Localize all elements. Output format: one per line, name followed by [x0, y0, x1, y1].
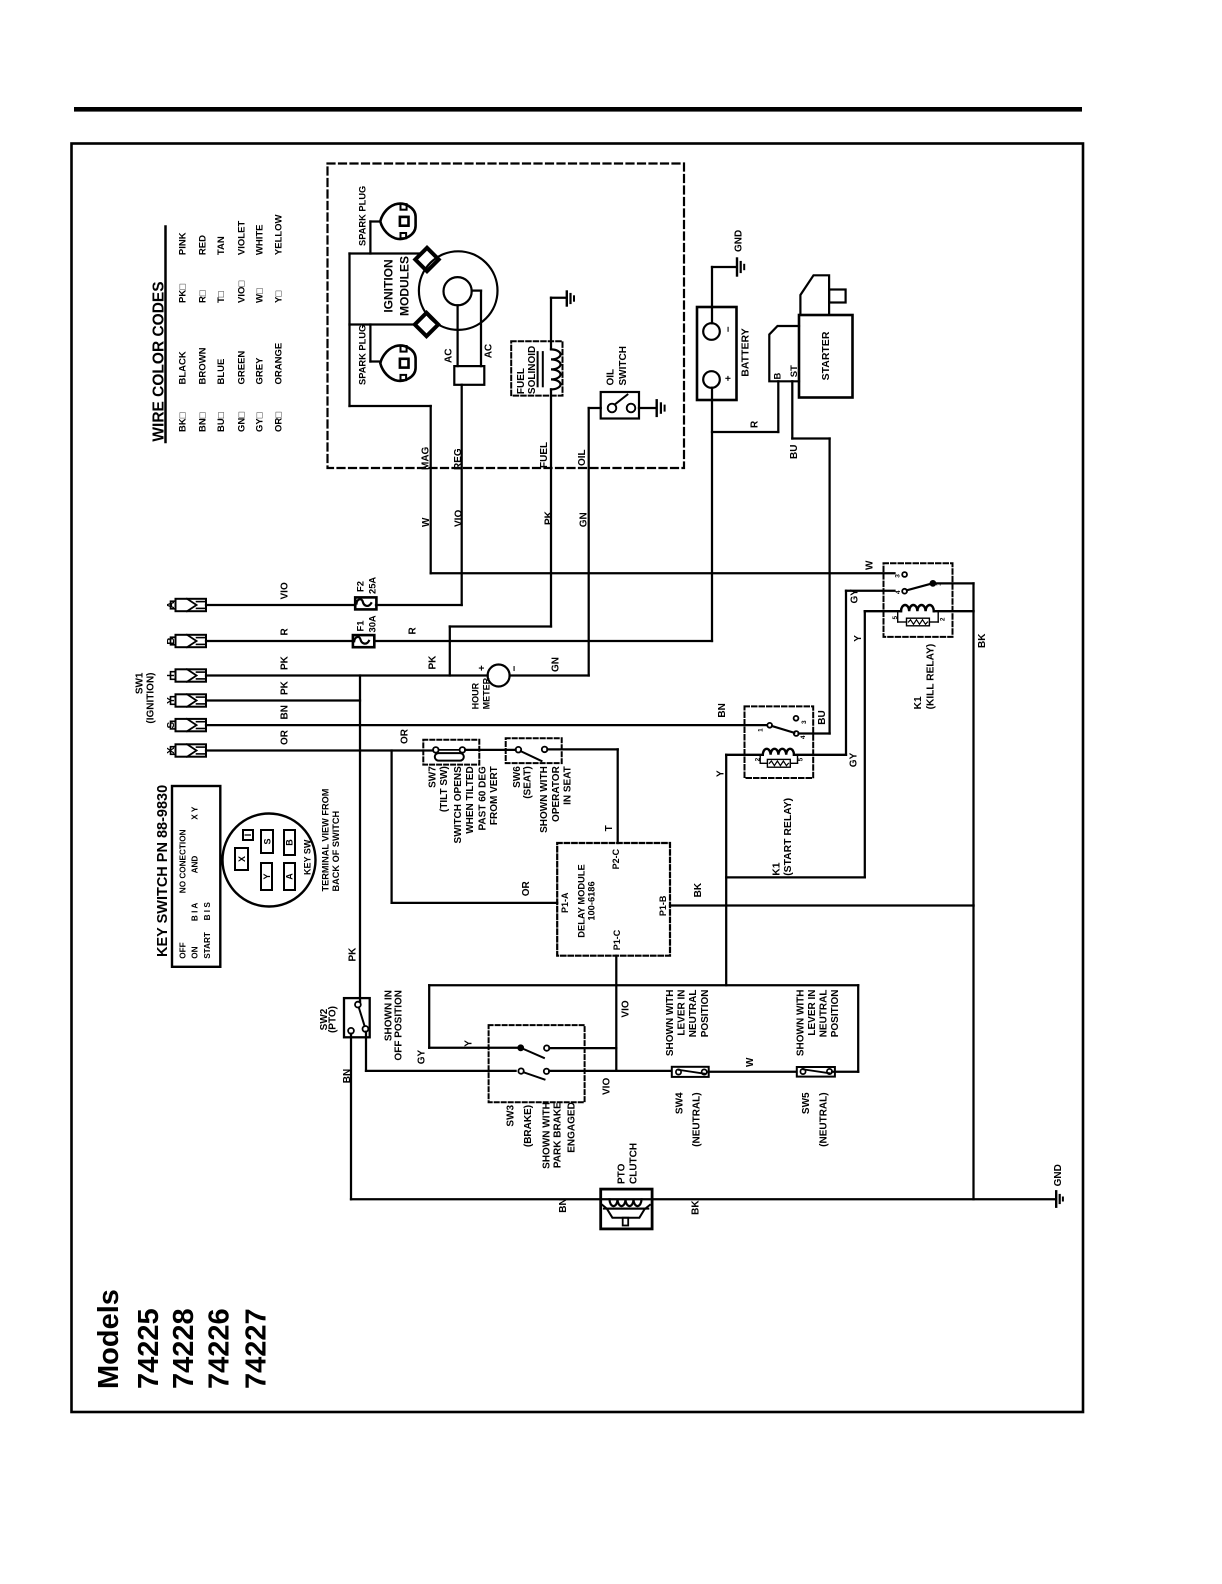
svg-text:PARK BRAKE: PARK BRAKE: [553, 1102, 564, 1168]
svg-text:2: 2: [754, 757, 761, 761]
svg-text:YELLOW: YELLOW: [273, 214, 284, 255]
svg-text:NEUTRAL: NEUTRAL: [688, 990, 699, 1038]
svg-text:OR: OR: [521, 881, 532, 897]
svg-text:BK: BK: [690, 1200, 701, 1215]
svg-text:IN SEAT: IN SEAT: [563, 766, 574, 805]
svg-text:SHOWN WITH: SHOWN WITH: [665, 990, 676, 1057]
svg-text:BK: BK: [693, 882, 704, 897]
svg-text:4: 4: [800, 735, 807, 739]
svg-text:AC: AC: [484, 344, 495, 358]
svg-text:GY: GY: [416, 1050, 427, 1065]
svg-text:GY: GY: [848, 752, 859, 767]
svg-text:FUEL: FUEL: [516, 368, 527, 394]
svg-text:SWITCH: SWITCH: [618, 346, 629, 385]
svg-text:SHOWN WITH: SHOWN WITH: [542, 1102, 553, 1169]
svg-text:B: B: [166, 637, 177, 644]
svg-text:WHITE: WHITE: [255, 224, 266, 255]
svg-text:NEUTRAL: NEUTRAL: [818, 990, 829, 1038]
svg-text:MAG: MAG: [421, 446, 432, 470]
svg-text:BK: BK: [977, 633, 988, 648]
svg-text:SW5: SW5: [801, 1092, 812, 1114]
svg-text:VIO: VIO: [280, 582, 291, 599]
svg-text:OPERATOR: OPERATOR: [551, 765, 562, 822]
svg-text:+: +: [477, 665, 488, 671]
svg-text:OFF POSITION: OFF POSITION: [393, 990, 404, 1061]
svg-text:PK: PK: [348, 947, 359, 962]
svg-text:3: 3: [801, 720, 808, 724]
svg-text:W: W: [745, 1057, 756, 1067]
svg-text:−: −: [510, 666, 521, 672]
svg-text:POSITION: POSITION: [830, 990, 841, 1038]
svg-text:BN: BN: [717, 703, 728, 717]
svg-text:SW3: SW3: [506, 1104, 517, 1126]
svg-text:B I S: B I S: [203, 902, 212, 921]
svg-text:SW7: SW7: [428, 766, 439, 788]
svg-text:SHOWN WITH: SHOWN WITH: [795, 990, 806, 1057]
svg-text:K1: K1: [913, 696, 924, 709]
svg-text:+: +: [724, 375, 735, 381]
svg-text:I: I: [166, 674, 177, 677]
svg-text:T: T: [604, 825, 615, 831]
svg-text:W: W: [421, 517, 432, 527]
svg-text:S: S: [262, 838, 272, 844]
svg-text:100-6186: 100-6186: [586, 881, 596, 920]
svg-text:BU□: BU□: [216, 412, 227, 432]
svg-text:Y: Y: [715, 770, 726, 777]
svg-text:POSITION: POSITION: [700, 990, 711, 1038]
svg-text:NO CONECTION: NO CONECTION: [179, 829, 188, 893]
svg-text:SW1: SW1: [135, 672, 146, 694]
svg-text:TERMINAL VIEW FROM: TERMINAL VIEW FROM: [321, 788, 331, 891]
svg-text:REG: REG: [453, 448, 464, 470]
svg-text:LEVER IN: LEVER IN: [807, 990, 818, 1036]
svg-text:PK: PK: [280, 655, 291, 670]
svg-text:VIO: VIO: [621, 1000, 632, 1017]
svg-text:HOUR: HOUR: [471, 682, 481, 709]
svg-text:VIO: VIO: [454, 510, 465, 527]
svg-text:BU: BU: [789, 445, 800, 459]
svg-text:(START RELAY): (START RELAY): [783, 798, 794, 876]
svg-text:74228: 74228: [168, 1308, 200, 1389]
svg-text:SW4: SW4: [675, 1092, 686, 1114]
svg-text:−: −: [724, 326, 735, 332]
svg-text:SPARK PLUG: SPARK PLUG: [358, 186, 368, 246]
svg-text:FROM VERT: FROM VERT: [489, 766, 500, 825]
svg-text:ORANGE: ORANGE: [273, 343, 284, 385]
svg-text:(KILL RELAY): (KILL RELAY): [926, 644, 937, 710]
svg-text:Y: Y: [464, 1040, 475, 1047]
svg-text:PK□: PK□: [178, 284, 189, 303]
svg-text:5: 5: [798, 757, 805, 761]
svg-text:Y: Y: [853, 635, 864, 642]
svg-text:(SEAT): (SEAT): [523, 766, 534, 799]
svg-text:P1-A: P1-A: [560, 892, 570, 913]
svg-text:3: 3: [894, 574, 901, 578]
svg-text:4: 4: [895, 590, 902, 594]
svg-text:BN: BN: [280, 705, 291, 719]
svg-text:START: START: [203, 932, 212, 959]
svg-text:P1-C: P1-C: [612, 929, 622, 950]
svg-text:DELAY MODULE: DELAY MODULE: [577, 864, 587, 937]
svg-text:74226: 74226: [204, 1308, 236, 1389]
svg-text:GREEN: GREEN: [237, 351, 248, 385]
svg-text:R: R: [280, 628, 291, 636]
svg-text:METER: METER: [482, 677, 492, 709]
svg-text:IGNITION: IGNITION: [382, 259, 396, 312]
svg-text:KEY SW: KEY SW: [303, 839, 313, 875]
svg-text:OFF: OFF: [179, 942, 188, 958]
svg-text:GND: GND: [734, 230, 745, 252]
svg-text:F2: F2: [355, 581, 366, 592]
svg-text:(PTO): (PTO): [328, 1006, 339, 1033]
svg-text:OR: OR: [400, 728, 411, 744]
svg-text:X: X: [166, 747, 177, 754]
svg-text:BACK OF SWITCH: BACK OF SWITCH: [331, 810, 341, 891]
svg-text:30A: 30A: [367, 615, 378, 632]
svg-text:BK□: BK□: [178, 412, 189, 432]
svg-text:Y: Y: [166, 697, 177, 704]
svg-text:GREY: GREY: [255, 357, 266, 385]
svg-text:PK: PK: [544, 510, 555, 525]
svg-text:B: B: [773, 373, 784, 380]
svg-text:A: A: [284, 873, 294, 880]
svg-text:BLACK: BLACK: [178, 351, 189, 384]
svg-text:1: 1: [758, 728, 765, 732]
svg-text:ON: ON: [191, 946, 200, 958]
svg-text:X: X: [237, 856, 247, 862]
svg-text:PTO: PTO: [617, 1163, 628, 1184]
svg-text:RED: RED: [197, 235, 208, 255]
svg-text:LEVER IN: LEVER IN: [677, 990, 688, 1036]
svg-text:25A: 25A: [367, 577, 378, 594]
svg-text:(BRAKE): (BRAKE): [523, 1105, 534, 1147]
svg-text:W: W: [865, 560, 876, 570]
svg-text:S: S: [166, 721, 177, 728]
svg-text:SHOWN WITH: SHOWN WITH: [539, 766, 550, 833]
svg-text:R: R: [408, 627, 419, 635]
svg-text:VIO□: VIO□: [237, 281, 248, 303]
svg-text:R□: R□: [197, 290, 208, 303]
svg-text:BU: BU: [817, 710, 828, 724]
svg-text:Y: Y: [262, 873, 272, 879]
svg-text:BN□: BN□: [197, 412, 208, 432]
svg-text:OR□: OR□: [273, 412, 284, 432]
svg-text:PK: PK: [280, 680, 291, 695]
svg-text:OR: OR: [280, 729, 291, 745]
svg-text:W□: W□: [255, 288, 266, 303]
svg-text:VIO: VIO: [602, 1078, 613, 1095]
svg-text:74227: 74227: [240, 1308, 272, 1389]
svg-text:BROWN: BROWN: [197, 347, 208, 384]
svg-text:(NEUTRAL): (NEUTRAL): [692, 1092, 703, 1146]
svg-text:AC: AC: [444, 349, 455, 363]
svg-text:OIL: OIL: [577, 449, 588, 466]
svg-text:BATTERY: BATTERY: [740, 328, 752, 376]
svg-text:CLUTCH: CLUTCH: [629, 1143, 640, 1184]
svg-text:TAN: TAN: [216, 236, 227, 255]
svg-text:MODULES: MODULES: [398, 256, 412, 316]
svg-text:R: R: [750, 420, 761, 428]
svg-text:(IGNITION): (IGNITION): [146, 673, 157, 724]
svg-text:SPARK PLUG: SPARK PLUG: [358, 325, 368, 385]
svg-text:WHEN TILTED: WHEN TILTED: [465, 766, 476, 834]
svg-text:F1: F1: [355, 621, 366, 632]
svg-text:PK: PK: [428, 655, 439, 670]
svg-text:K1: K1: [772, 862, 783, 876]
svg-text:GN: GN: [579, 512, 590, 527]
svg-text:(TILT SW): (TILT SW): [439, 766, 450, 812]
svg-text:B I A: B I A: [191, 903, 200, 921]
svg-text:A: A: [166, 601, 177, 608]
svg-text:BLUE: BLUE: [216, 359, 227, 385]
svg-text:74225: 74225: [133, 1308, 165, 1389]
svg-text:Y□: Y□: [273, 291, 284, 303]
svg-text:STARTER: STARTER: [820, 331, 832, 380]
svg-text:B: B: [284, 839, 294, 846]
svg-text:GN: GN: [551, 657, 562, 672]
svg-text:BN: BN: [558, 1198, 569, 1212]
svg-text:(NEUTRAL): (NEUTRAL): [818, 1092, 829, 1146]
svg-text:ENGAGED: ENGAGED: [566, 1102, 577, 1153]
svg-text:SWITCH OPENS: SWITCH OPENS: [453, 766, 464, 844]
svg-text:PAST 60 DEG: PAST 60 DEG: [477, 766, 488, 830]
svg-text:VIOLET: VIOLET: [237, 221, 248, 256]
svg-text:P2-C: P2-C: [611, 848, 621, 869]
svg-text:GY: GY: [850, 589, 861, 604]
svg-text:2: 2: [939, 617, 946, 621]
svg-text:GY□: GY□: [255, 412, 266, 432]
svg-text:T□: T□: [216, 291, 227, 303]
svg-text:ST: ST: [789, 365, 800, 377]
svg-text:BN: BN: [342, 1069, 353, 1083]
svg-text:GND: GND: [1053, 1164, 1064, 1186]
svg-text:X Y: X Y: [191, 806, 200, 820]
svg-text:FUEL: FUEL: [539, 442, 550, 468]
svg-text:SOLINOID: SOLINOID: [527, 346, 538, 394]
svg-text:I: I: [243, 834, 253, 837]
svg-text:PINK: PINK: [178, 232, 189, 255]
svg-text:P1-B: P1-B: [658, 895, 668, 916]
svg-text:GN□: GN□: [237, 412, 248, 432]
svg-text:5: 5: [892, 616, 899, 620]
svg-text:WIRE COLOR CODES: WIRE COLOR CODES: [150, 281, 167, 441]
svg-text:AND: AND: [191, 856, 200, 874]
svg-text:SW6: SW6: [512, 766, 523, 788]
svg-text:Models: Models: [93, 1289, 125, 1389]
svg-text:KEY SWITCH PN 88-9830: KEY SWITCH PN 88-9830: [155, 785, 171, 957]
svg-text:OIL: OIL: [606, 369, 617, 386]
